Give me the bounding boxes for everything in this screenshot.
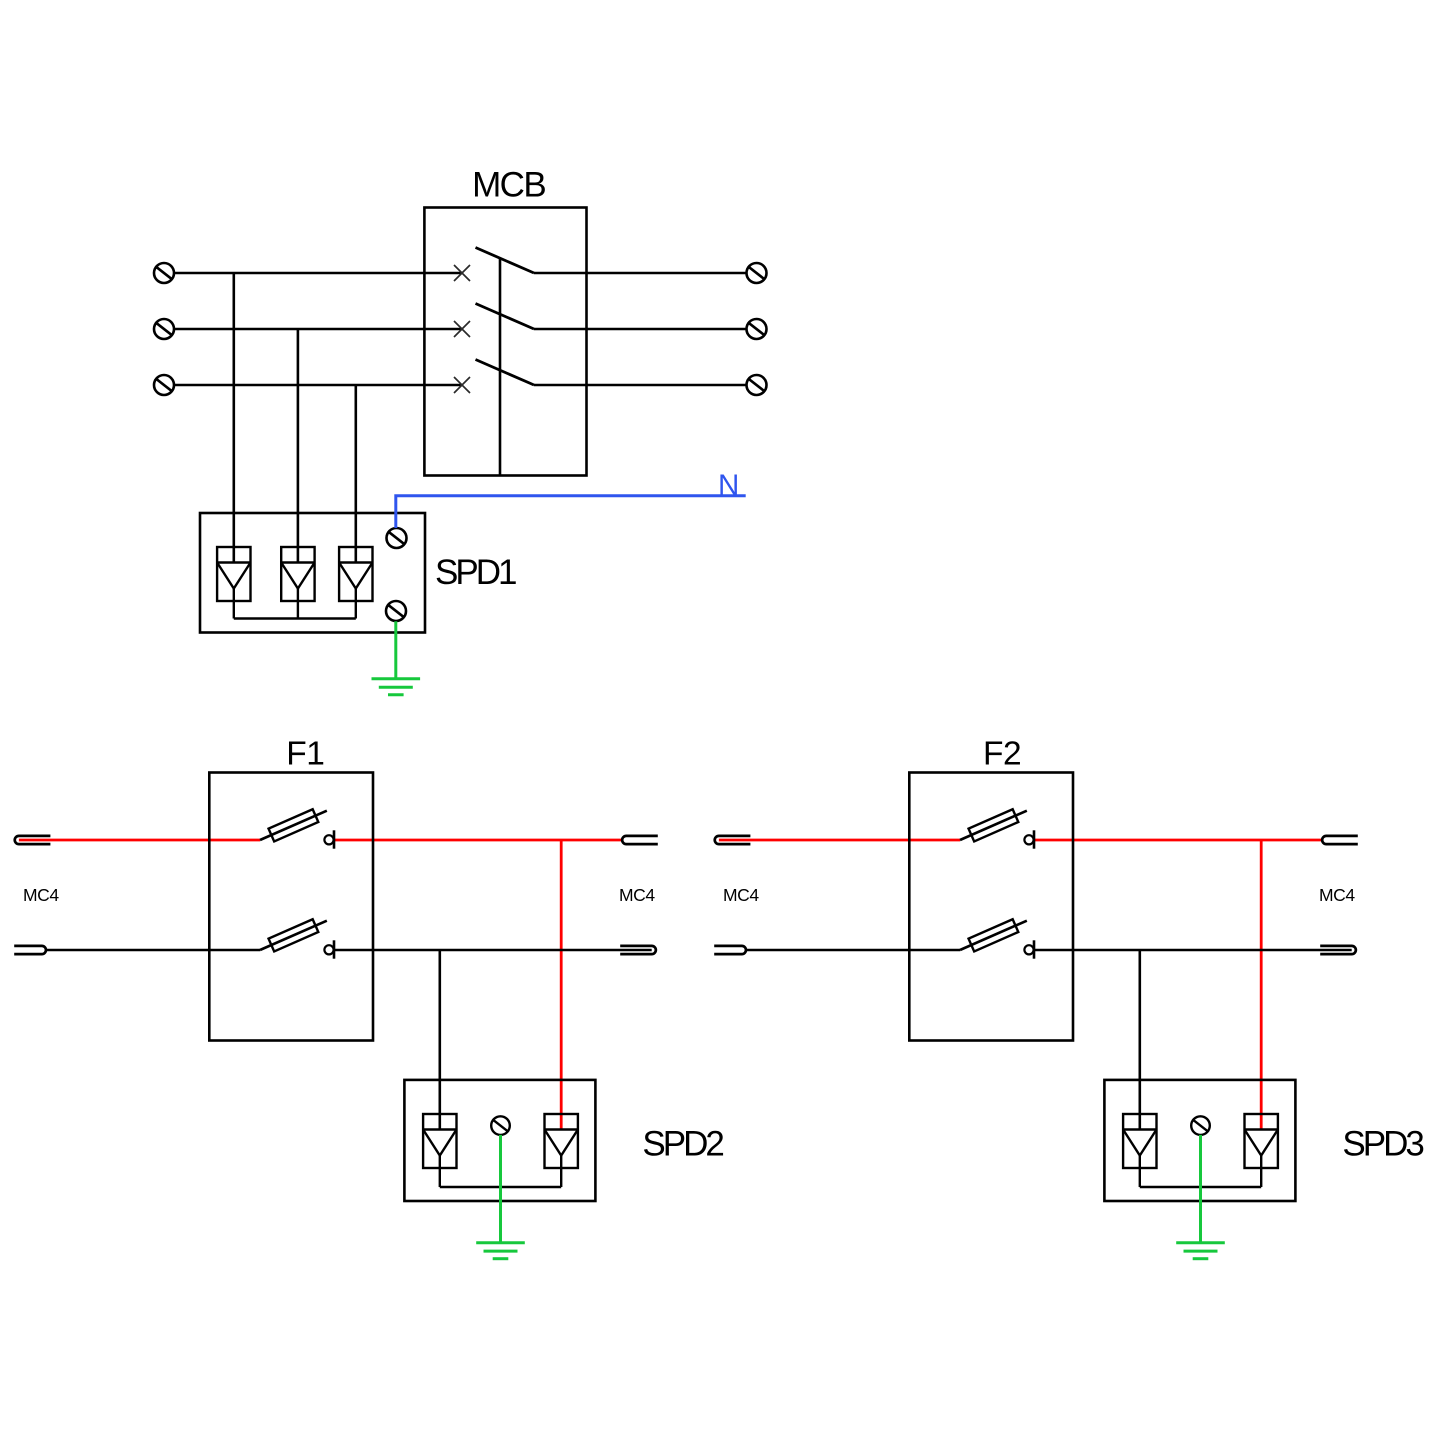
svg-text:N: N	[718, 469, 739, 502]
svg-text:SPD1: SPD1	[435, 553, 516, 592]
svg-text:MCB: MCB	[472, 166, 545, 205]
svg-text:F2: F2	[983, 735, 1021, 772]
svg-text:SPD2: SPD2	[642, 1125, 723, 1164]
svg-text:F1: F1	[286, 735, 324, 772]
svg-text:SPD3: SPD3	[1342, 1125, 1423, 1164]
